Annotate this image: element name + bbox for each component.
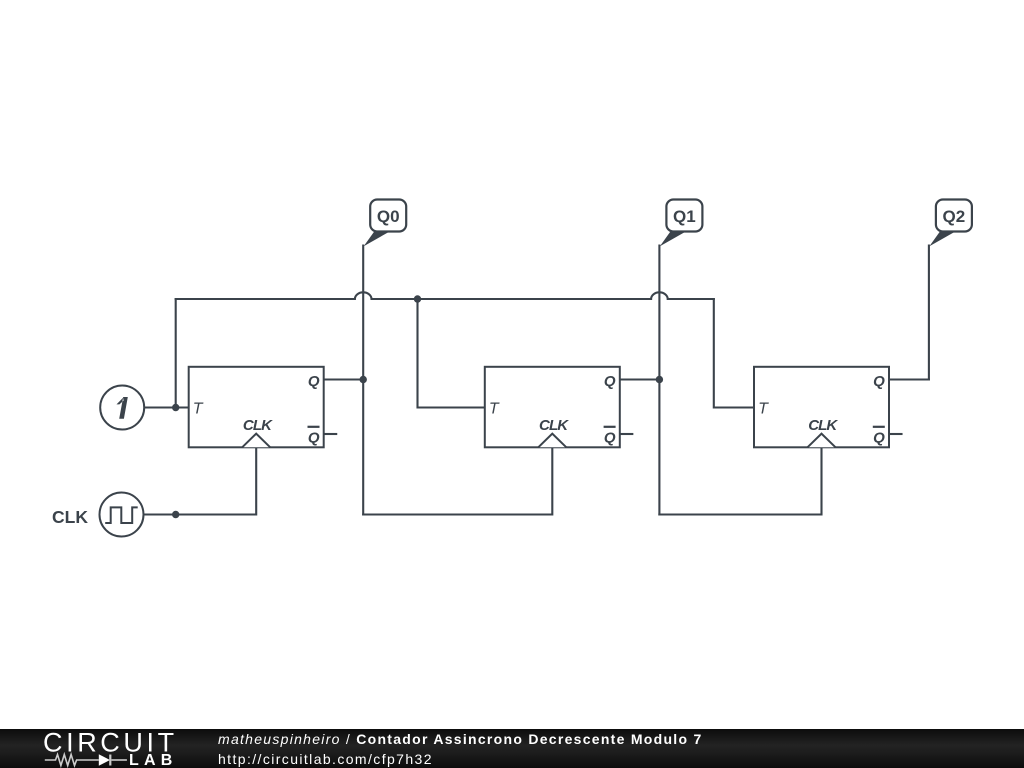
U2 Qbar overbar (604, 426, 616, 428)
flag Q2 box (936, 200, 972, 232)
CircuitLab logo wordmark (43, 728, 178, 768)
U2 clock edge triangle (538, 434, 566, 448)
U3 clock edge triangle (808, 434, 836, 448)
flag Q2 pointer tail (929, 231, 953, 246)
T flip-flop U3 (754, 367, 889, 448)
flag Q0 pointer tail (364, 231, 388, 246)
wire: U1 Q output to node Q0 (324, 378, 364, 380)
wire: Q2 vertical up to flag (928, 246, 930, 380)
U1 body (189, 367, 324, 448)
wire: feedback net at y=299 from node A to T of U3, hops over Q0 and Q1 verticals (176, 292, 714, 299)
svg-text:Q: Q (873, 373, 885, 390)
wire: Q1 net to CLK of U3 (659, 447, 821, 514)
net flag Q0 (364, 200, 407, 247)
U1 clock edge triangle (242, 434, 270, 448)
svg-text:LAB: LAB (129, 752, 177, 768)
wire: U1 Qbar stub (324, 433, 337, 435)
constant source V1 value 1 (100, 386, 144, 430)
logo resistor zigzag (45, 755, 99, 766)
footer banner (0, 729, 1024, 768)
footer title text (218, 731, 703, 767)
wire: from constant-1 source V1 to T input of U1 (144, 406, 189, 408)
svg-text:http://circuitlab.com/cfp7h32: http://circuitlab.com/cfp7h32 (218, 751, 433, 767)
svg-text:CLK: CLK (539, 417, 569, 434)
svg-text:Q1: Q1 (673, 207, 696, 226)
svg-text:T: T (758, 401, 769, 418)
svg-text:Q: Q (873, 429, 885, 446)
square wave clock source V2, label CLK (52, 493, 143, 537)
V2 square-wave glyph (105, 507, 138, 523)
U3 body (754, 367, 889, 448)
svg-text:CLK: CLK (52, 507, 88, 527)
wire: square-wave source V2 to CLK of U1 (144, 447, 257, 514)
svg-text:Q: Q (308, 373, 320, 390)
flag Q0 box (370, 200, 406, 232)
logo lead wire (112, 759, 127, 761)
T flip-flop U2 (485, 367, 620, 448)
svg-text:Q: Q (604, 429, 616, 446)
T flip-flop U1 (189, 367, 324, 448)
V1 circle body (100, 386, 144, 430)
U2 body (485, 367, 620, 448)
junction node Q1 at U2 Q output (656, 376, 663, 383)
net flag Q1 (660, 200, 703, 247)
svg-text:T: T (489, 401, 500, 418)
CircuitLab logo resistor-diode art (45, 754, 127, 766)
U1 Qbar overbar (308, 426, 320, 428)
svg-text:T: T (193, 401, 204, 418)
svg-text:Q0: Q0 (377, 207, 400, 226)
wire: right end of feedback down to T input of U3 (714, 299, 754, 408)
svg-text:matheuspinheiro / Contador Ass: matheuspinheiro / Contador Assincrono De… (218, 731, 703, 747)
wire: U2 Qbar stub (620, 433, 633, 435)
logo diode cathode bar (109, 755, 111, 766)
junction on clock wire (172, 511, 179, 518)
flag Q1 box (666, 200, 702, 232)
wire: U3 Q output to node Q2 (889, 378, 929, 380)
logo diode triangle (99, 754, 110, 766)
net flag Q2 (929, 200, 972, 247)
svg-text:CLK: CLK (243, 417, 273, 434)
U3 Qbar overbar (873, 426, 885, 428)
junction node Q0 at U1 Q output (360, 376, 367, 383)
junction on feedback wire at U2 branch (414, 295, 421, 302)
junction at T input of U1 (172, 404, 179, 411)
wire: U3 Qbar stub (889, 433, 902, 435)
V2 circle body (100, 493, 144, 537)
wire: Q0 vertical from flag down through feedback to clock level (362, 246, 364, 515)
V1 value glyph 1 (117, 397, 128, 419)
wire: left vertical from feedback down to T level of U1 (175, 299, 177, 408)
wire: Q0 net to CLK of U2 (363, 447, 552, 514)
svg-text:Q: Q (604, 373, 616, 390)
wire: U2 Q output to node Q1 (620, 378, 660, 380)
flag Q1 pointer tail (660, 231, 684, 246)
wire: Q1 vertical from flag down through feedback to clock level (658, 246, 660, 515)
svg-text:Q: Q (308, 429, 320, 446)
svg-text:CLK: CLK (808, 417, 838, 434)
wire: branch vertical at x=417.5 down to T input of U2 (418, 299, 485, 408)
svg-text:Q2: Q2 (943, 207, 966, 226)
